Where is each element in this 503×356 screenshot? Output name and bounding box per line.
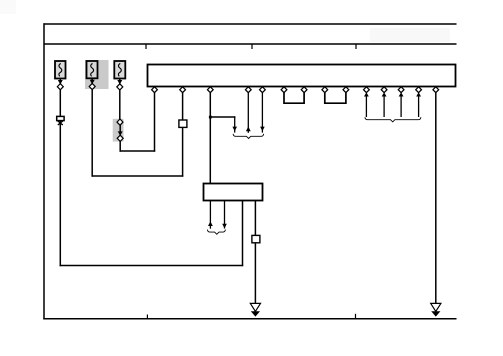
- fuse F3: [114, 61, 125, 79]
- wire fuse F1 stub: [59, 79, 61, 85]
- wire F2 horizontal: [92, 175, 184, 177]
- arrow down on stub B: [222, 224, 227, 229]
- wire relay to ground: [254, 201, 256, 304]
- wire branch down: [234, 116, 236, 132]
- ECU pin 6 diamond: [364, 87, 370, 93]
- wire pin 9 down: [418, 95, 420, 117]
- shorting loop 2: [325, 93, 346, 104]
- ECU pin 9 diamond: [416, 87, 422, 93]
- frame: bottom border: [43, 318, 456, 320]
- arrow down on pin 5 wire: [260, 127, 265, 132]
- wire F3 up to ECU pin 1: [154, 92, 156, 152]
- ECU pin 3 diamond: [207, 87, 213, 93]
- shorting loop 1: [284, 93, 304, 104]
- frame: title band top line: [44, 23, 457, 25]
- wire branch right: [210, 116, 235, 118]
- arrow above connector of F2: [90, 80, 95, 84]
- frame: title band bottom line: [44, 43, 457, 45]
- wire up to relay pin: [242, 200, 244, 266]
- arrow above connector of F1: [58, 80, 63, 84]
- arrow up pin 7: [382, 92, 387, 96]
- relay box: [204, 184, 263, 201]
- fuse F2: [87, 61, 98, 78]
- ECU loop 2 pins: [322, 87, 328, 93]
- wire fuse F3 stub: [119, 79, 121, 85]
- ECU pin 1 diamond: [152, 87, 158, 93]
- fuse F1: [55, 61, 66, 79]
- tick band 2: [251, 44, 253, 49]
- arrow above pair bottom connector: [118, 131, 123, 135]
- wire pin 8 down: [400, 95, 402, 117]
- highlight gray connector pair below fuse F3: [113, 119, 124, 142]
- ECU pin 8 diamond: [398, 87, 404, 93]
- wire horizontal to relay: [60, 265, 244, 267]
- wire ECU pin 5 down: [261, 93, 263, 133]
- faint corner block: [0, 0, 16, 14]
- wire fuse F2 stub: [91, 78, 93, 83]
- tick bottom 2: [355, 314, 357, 319]
- arrow above connector of F3: [117, 80, 122, 84]
- wire F3 below pair: [119, 141, 121, 152]
- connector diamond pair top: [117, 119, 123, 125]
- wire F3 down to pair: [119, 90, 121, 120]
- connector diamond F2: [89, 83, 95, 89]
- ECU pin 10 diamond far right: [433, 87, 439, 93]
- wire between pair: [119, 125, 121, 136]
- arrow up on pin 4 wire: [246, 127, 251, 132]
- ECU loop 1 pins: [281, 87, 287, 93]
- inline connector square on F2 wire: [179, 120, 187, 127]
- wire F1 to fusible link: [59, 89, 61, 116]
- title blur: [370, 28, 450, 42]
- bracket under 3 arrows: [233, 134, 264, 139]
- wire pin 6 down: [365, 95, 367, 117]
- arrow down on branch: [232, 127, 237, 132]
- arrow up pin 8: [399, 92, 404, 96]
- arrow up pin 6: [364, 92, 369, 96]
- tick band 3: [355, 44, 357, 49]
- wire pin 7 down: [383, 95, 385, 117]
- ground G1 open triangle: [250, 303, 260, 311]
- bracket under relay stubs: [207, 230, 225, 235]
- connector diamond F3: [117, 84, 123, 90]
- connector diamond pair bottom: [117, 135, 123, 141]
- wire pin 10 long down: [435, 93, 437, 304]
- tick bottom 1: [146, 315, 148, 319]
- ground G1 solid arrow: [251, 311, 260, 316]
- junction block ECU box: [148, 65, 456, 87]
- ECU pin 4 diamond: [245, 87, 251, 93]
- junction dot: [209, 116, 212, 119]
- bracket under 4 arrows: [365, 117, 421, 122]
- relay stub B down: [224, 201, 226, 229]
- highlight gray fuse F2: [85, 60, 109, 89]
- ground G2 open triangle: [431, 303, 441, 311]
- ECU pin 2 diamond: [180, 87, 186, 93]
- tick band 1: [145, 44, 147, 49]
- inline connector square on ground wire: [252, 235, 260, 242]
- fusible link block on F1 wire: [57, 116, 64, 120]
- relay stub A down: [209, 201, 211, 229]
- wire F2 up to ECU pin 2: [182, 92, 184, 177]
- ground G2 solid arrow: [431, 311, 440, 316]
- arrow up pin 9: [416, 92, 421, 96]
- connector diamond F1: [57, 84, 63, 90]
- wire ECU pin 4 down: [247, 93, 249, 133]
- arrow up on stub A: [208, 221, 213, 226]
- frame: left border: [43, 23, 45, 319]
- ECU pin 7 diamond: [381, 87, 387, 93]
- wire F2 down: [91, 89, 93, 177]
- splice X below fusible link: [58, 121, 63, 125]
- wire F1 long down: [59, 121, 61, 267]
- wire ECU pin 3 down to relay: [209, 92, 211, 184]
- wire F3 horizontal: [120, 150, 156, 152]
- ECU pin 5 diamond: [260, 87, 266, 93]
